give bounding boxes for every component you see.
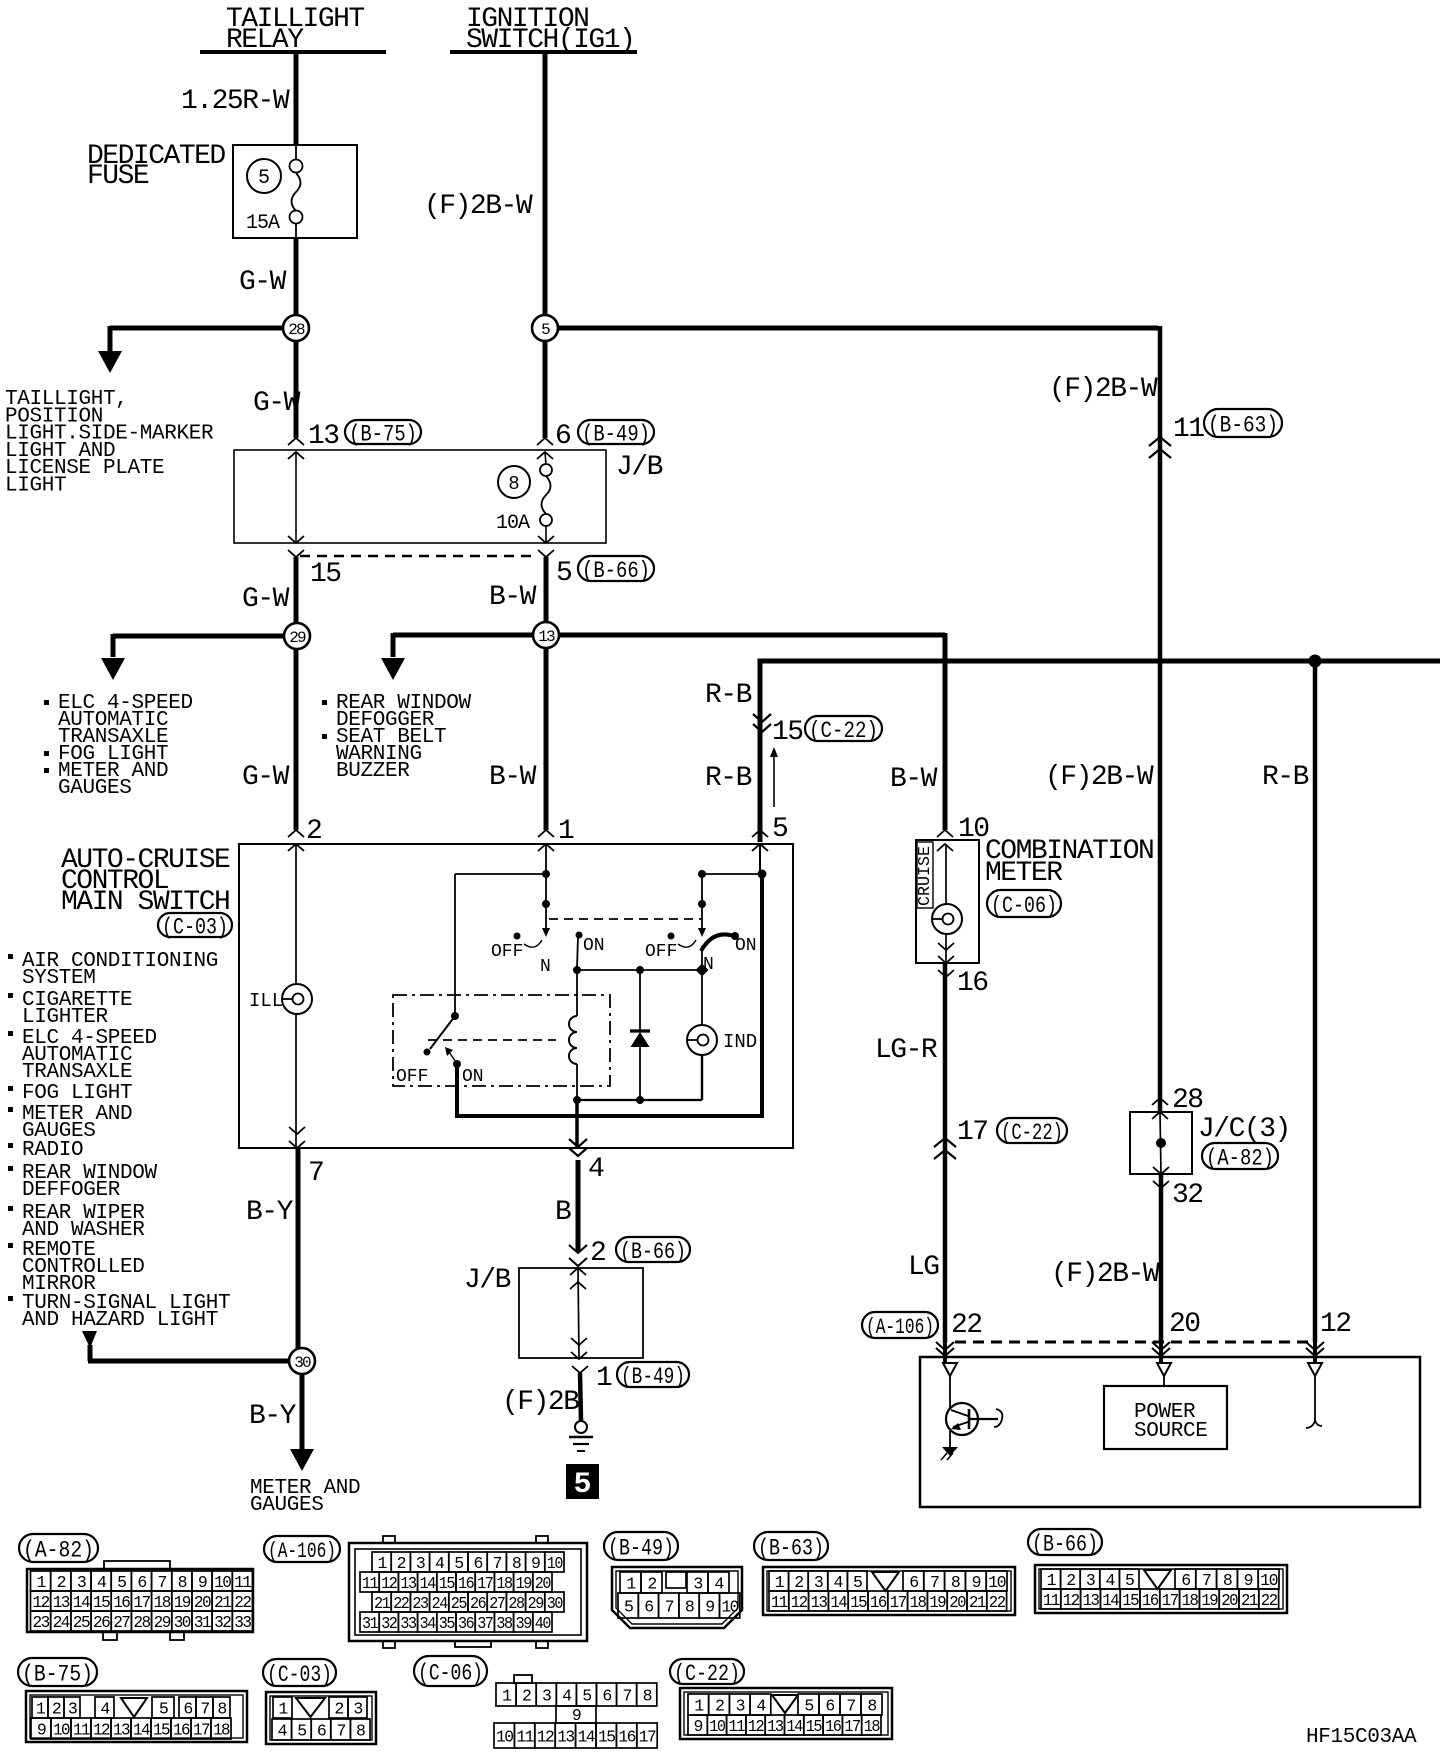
svg-text:16: 16 (1142, 1591, 1158, 1610)
internal wire to relay contact (455, 873, 546, 875)
svg-text:LIGHTER: LIGHTER (22, 1006, 109, 1029)
junction block J/B (234, 450, 606, 543)
svg-text:7: 7 (665, 1598, 674, 1617)
svg-text:31: 31 (194, 1613, 212, 1632)
svg-text:15: 15 (598, 1728, 615, 1747)
wire B-Y to node 30 (296, 1148, 301, 1350)
svg-text:2: 2 (397, 1554, 406, 1573)
svg-text:7: 7 (622, 1687, 631, 1706)
svg-text:32: 32 (1172, 1180, 1203, 1211)
svg-text:METER: METER (985, 858, 1063, 889)
svg-text:(C-22): (C-22) (809, 718, 878, 744)
svg-text:7: 7 (1202, 1571, 1211, 1590)
svg-text:HF15C03AA: HF15C03AA (1306, 1726, 1417, 1749)
svg-text:(F)2B-W: (F)2B-W (1045, 762, 1154, 793)
svg-text:14: 14 (786, 1717, 803, 1736)
svg-text:9: 9 (693, 1717, 702, 1736)
pin 2 entry (288, 830, 304, 837)
connector B-49 pinout (612, 1567, 742, 1628)
wire switch2 N to bus (701, 946, 703, 964)
auto-cruise control main switch box C-03 (239, 844, 793, 1148)
svg-text:2: 2 (52, 1700, 61, 1719)
svg-text:21: 21 (214, 1593, 232, 1612)
svg-text:8: 8 (643, 1687, 652, 1706)
svg-text:6: 6 (909, 1573, 918, 1592)
svg-text:18: 18 (213, 1721, 230, 1740)
svg-text:31: 31 (362, 1614, 379, 1633)
branch wire to ELC loads (113, 634, 286, 639)
pin 5 entry (752, 830, 768, 837)
connector B-63 pinout (763, 1567, 1015, 1615)
connector label C-22 (670, 1659, 744, 1684)
svg-text:10: 10 (709, 1717, 725, 1736)
svg-text:12: 12 (1063, 1591, 1079, 1610)
svg-text:12: 12 (381, 1574, 397, 1593)
wire LG-R (943, 963, 948, 1342)
svg-text:6: 6 (644, 1598, 653, 1617)
svg-text:J/C(3): J/C(3) (1198, 1114, 1290, 1145)
svg-text:29: 29 (154, 1613, 171, 1632)
rear defogger loads list (322, 700, 327, 705)
svg-text:22: 22 (1261, 1591, 1277, 1610)
pin 1 entry (538, 830, 554, 837)
connector C-22 pinout (680, 1688, 892, 1739)
svg-text:9: 9 (37, 1721, 46, 1740)
svg-text:7: 7 (158, 1573, 167, 1592)
svg-text:7: 7 (846, 1697, 855, 1716)
svg-text:10A: 10A (496, 512, 530, 535)
svg-text:(C-22): (C-22) (1001, 1120, 1063, 1146)
svg-text:14: 14 (73, 1593, 91, 1612)
svg-text:DEFFOGER: DEFFOGER (22, 1179, 121, 1202)
svg-text:B-W: B-W (890, 764, 938, 795)
svg-text:13: 13 (557, 1728, 574, 1747)
svg-text:2: 2 (334, 1700, 343, 1719)
svg-text:2: 2 (522, 1687, 531, 1706)
svg-text:15: 15 (153, 1721, 170, 1740)
svg-text:19: 19 (1201, 1591, 1217, 1610)
svg-text:(C-03): (C-03) (162, 914, 228, 940)
svg-text:39: 39 (516, 1614, 532, 1633)
svg-text:5: 5 (454, 1554, 463, 1573)
svg-text:13: 13 (400, 1574, 416, 1593)
svg-text:32: 32 (381, 1614, 397, 1633)
svg-text:20: 20 (535, 1574, 551, 1593)
svg-text:29: 29 (289, 629, 306, 647)
svg-text:OFF: OFF (396, 1067, 428, 1087)
svg-text:24: 24 (432, 1594, 449, 1613)
svg-text:8: 8 (217, 1700, 226, 1719)
svg-text:2: 2 (794, 1573, 803, 1592)
svg-text:FUSE: FUSE (87, 161, 149, 192)
svg-text:15: 15 (1122, 1591, 1138, 1610)
svg-text:ON: ON (735, 936, 757, 956)
svg-text:GAUGES: GAUGES (58, 777, 132, 800)
svg-text:11: 11 (729, 1717, 746, 1736)
svg-text:9: 9 (972, 1573, 981, 1592)
svg-text:10: 10 (214, 1573, 231, 1592)
svg-text:17: 17 (957, 1117, 988, 1148)
svg-text:26: 26 (93, 1613, 110, 1632)
svg-text:14: 14 (830, 1593, 847, 1612)
wire through J/B 2 (578, 1268, 579, 1358)
transistor symbol (949, 1376, 951, 1410)
svg-text:(F)2B-W: (F)2B-W (1051, 1259, 1160, 1290)
svg-text:22: 22 (989, 1593, 1005, 1612)
svg-text:LG-R: LG-R (875, 1035, 938, 1066)
svg-text:13: 13 (308, 421, 339, 452)
pin 2 B-66 marker (569, 1245, 587, 1253)
svg-text:6: 6 (137, 1573, 146, 1592)
terminal pin 22 (943, 1363, 957, 1376)
svg-text:3: 3 (1086, 1571, 1095, 1590)
diode (639, 970, 641, 1031)
svg-text:3: 3 (416, 1554, 425, 1573)
cruise lamp wire (945, 844, 947, 904)
svg-text:AND HAZARD LIGHT: AND HAZARD LIGHT (22, 1309, 218, 1332)
svg-text:17: 17 (890, 1593, 906, 1612)
svg-text:13: 13 (113, 1721, 130, 1740)
svg-text:18: 18 (154, 1593, 171, 1612)
svg-text:ILL: ILL (249, 990, 283, 1012)
svg-text:33: 33 (234, 1613, 251, 1632)
svg-text:23: 23 (412, 1594, 428, 1613)
svg-text:15: 15 (772, 717, 803, 748)
svg-text:(B-63): (B-63) (758, 1535, 824, 1561)
svg-text:8: 8 (512, 1554, 521, 1573)
connector C-03 pinout (266, 1692, 376, 1744)
svg-text:12: 12 (1320, 1309, 1351, 1340)
svg-text:16: 16 (458, 1574, 474, 1593)
svg-text:33: 33 (400, 1614, 416, 1633)
svg-text:11: 11 (234, 1573, 252, 1592)
svg-text:2: 2 (590, 1238, 605, 1269)
connector label B-66 (1028, 1529, 1102, 1555)
svg-text:(A-82): (A-82) (1206, 1145, 1274, 1171)
svg-text:(B-63): (B-63) (1208, 412, 1278, 438)
svg-text:(F)2B-W: (F)2B-W (424, 191, 533, 222)
svg-text:13: 13 (1083, 1591, 1099, 1610)
svg-text:(B-66): (B-66) (620, 1239, 686, 1265)
svg-text:5: 5 (1125, 1571, 1134, 1590)
svg-text:10: 10 (1260, 1571, 1278, 1590)
wire B-W to node 13 (544, 557, 549, 624)
relay linkage dashed (428, 1039, 556, 1041)
svg-text:RADIO: RADIO (22, 1139, 83, 1162)
wire G-W through J/B (288, 438, 304, 445)
svg-text:22: 22 (393, 1594, 409, 1613)
svg-text:FOG LIGHT: FOG LIGHT (22, 1082, 132, 1105)
svg-text:2: 2 (57, 1573, 66, 1592)
connector label A-82 (19, 1534, 98, 1562)
svg-text:7: 7 (493, 1554, 502, 1573)
svg-text:15: 15 (850, 1593, 866, 1612)
svg-text:5: 5 (772, 814, 788, 845)
power source unit (1104, 1386, 1227, 1449)
connector pass-through 17 C-22 (934, 1138, 956, 1147)
connector label B-63 (754, 1532, 828, 1560)
svg-text:15: 15 (310, 559, 341, 590)
svg-text:16: 16 (870, 1593, 886, 1612)
pin 4 exit (569, 1139, 587, 1147)
svg-text:17: 17 (844, 1717, 860, 1736)
wire G-W below fuse (294, 238, 299, 317)
svg-text:13: 13 (53, 1593, 70, 1612)
svg-text:10: 10 (496, 1728, 513, 1747)
svg-text:7: 7 (308, 1158, 323, 1189)
svg-text:17: 17 (1162, 1591, 1178, 1610)
svg-text:14: 14 (133, 1721, 151, 1740)
IND lamp wire (701, 976, 703, 1025)
svg-text:30: 30 (174, 1613, 191, 1632)
svg-text:13: 13 (811, 1593, 827, 1612)
connector label B-49 (604, 1532, 678, 1560)
svg-text:ON: ON (462, 1067, 484, 1087)
svg-text:21: 21 (374, 1594, 391, 1613)
svg-text:15: 15 (439, 1574, 455, 1593)
svg-text:14: 14 (420, 1574, 437, 1593)
node 5 (543, 340, 548, 438)
svg-text:3: 3 (814, 1573, 823, 1592)
svg-text:12: 12 (537, 1728, 554, 1747)
IND lamp (687, 1025, 717, 1055)
svg-text:21: 21 (969, 1593, 986, 1612)
svg-text:28: 28 (508, 1594, 524, 1613)
connector C-06 pinout (514, 1675, 532, 1683)
svg-text:19: 19 (929, 1593, 945, 1612)
svg-text:20: 20 (1169, 1309, 1200, 1340)
pin 1 internal wire (545, 844, 547, 906)
wire (F)2B-W ignition feed (543, 52, 548, 317)
svg-text:IND: IND (723, 1031, 757, 1053)
reference arrow up (773, 756, 775, 807)
svg-text:N: N (540, 957, 551, 977)
svg-text:16: 16 (825, 1717, 841, 1736)
wire to power source (1163, 1376, 1165, 1386)
svg-text:19: 19 (516, 1574, 532, 1593)
svg-text:B-Y: B-Y (249, 1401, 297, 1432)
switch 1 arm (545, 906, 547, 928)
wire branch node28 to taillight loads (110, 326, 285, 331)
node 28 (283, 315, 309, 341)
wire B-W to switch pin 1 (544, 647, 549, 830)
pin chevrons into power source (936, 1342, 954, 1350)
svg-text:19: 19 (174, 1593, 191, 1612)
svg-text:OFF: OFF (491, 942, 523, 962)
svg-text:15A: 15A (246, 212, 280, 235)
svg-text:30: 30 (294, 1354, 311, 1372)
wire B-W branch to combination meter (558, 633, 945, 638)
svg-text:B-W: B-W (489, 582, 537, 613)
svg-text:2: 2 (647, 1575, 656, 1594)
svg-text:11: 11 (771, 1593, 788, 1612)
relay coil (576, 970, 578, 1016)
svg-text:SOURCE: SOURCE (1134, 1420, 1208, 1443)
pin 10 entry (937, 830, 953, 837)
svg-text:30: 30 (547, 1594, 563, 1613)
svg-text:9: 9 (531, 1554, 540, 1573)
svg-text:8: 8 (508, 473, 519, 495)
svg-text:13: 13 (767, 1717, 783, 1736)
wire to pin 4 (575, 1100, 579, 1148)
svg-text:2: 2 (1066, 1571, 1075, 1590)
svg-text:(A-106): (A-106) (268, 1539, 336, 1564)
ILL lamp (282, 984, 312, 1014)
svg-text:38: 38 (496, 1614, 512, 1633)
svg-text:10: 10 (721, 1598, 738, 1617)
wire G-W to node 29 (294, 557, 299, 625)
combination meter box C-06 (916, 840, 979, 963)
svg-text:28: 28 (133, 1613, 150, 1632)
svg-text:(B-66): (B-66) (582, 558, 650, 584)
svg-text:20: 20 (949, 1593, 965, 1612)
internal bus wire (577, 969, 702, 971)
svg-text:11: 11 (362, 1574, 379, 1593)
svg-text:18: 18 (1182, 1591, 1198, 1610)
svg-text:GAUGES: GAUGES (250, 1494, 324, 1517)
svg-text:8: 8 (685, 1598, 694, 1617)
svg-text:28: 28 (288, 321, 305, 339)
svg-text:25: 25 (451, 1594, 467, 1613)
svg-text:1: 1 (596, 1363, 612, 1394)
svg-text:10: 10 (53, 1721, 70, 1740)
svg-text:34: 34 (420, 1614, 437, 1633)
connector ref A-106 (862, 1312, 938, 1338)
illumination loads list (8, 954, 13, 959)
pin 5 internal wire (759, 844, 761, 872)
wire R-B right vertical (1313, 661, 1318, 1342)
wire switch1 ON to bus (577, 937, 578, 968)
svg-text:26: 26 (470, 1594, 486, 1613)
connector boundary dashed line (300, 555, 532, 558)
svg-text:17: 17 (639, 1728, 656, 1747)
relay box dash-dot (393, 995, 610, 1086)
connector B-75 pinout (26, 1691, 247, 1742)
svg-text:(B-75): (B-75) (22, 1661, 93, 1687)
svg-text:N: N (703, 955, 714, 975)
svg-text:8: 8 (356, 1722, 365, 1741)
ground (575, 1421, 587, 1433)
svg-text:(C-22): (C-22) (674, 1661, 740, 1687)
pin 16 exit (938, 943, 954, 950)
svg-text:5: 5 (556, 558, 572, 589)
svg-text:5: 5 (804, 1697, 813, 1716)
svg-text:LIGHT: LIGHT (5, 475, 66, 498)
svg-text:5: 5 (624, 1598, 633, 1617)
svg-text:20: 20 (194, 1593, 211, 1612)
pin 7 exit (289, 1127, 305, 1134)
svg-text:13: 13 (538, 628, 555, 646)
wire B to J/B (576, 1160, 581, 1252)
svg-text:18: 18 (864, 1717, 880, 1736)
relay switch (451, 1012, 459, 1020)
svg-text:SYSTEM: SYSTEM (22, 967, 96, 990)
svg-text:36: 36 (458, 1614, 474, 1633)
svg-text:3: 3 (77, 1573, 86, 1592)
svg-text:8: 8 (867, 1697, 876, 1716)
svg-text:(B-66): (B-66) (1032, 1531, 1098, 1557)
switch 1 contacts (514, 933, 521, 940)
svg-text:20: 20 (1221, 1591, 1237, 1610)
svg-text:23: 23 (33, 1613, 50, 1632)
connector label C-06 (414, 1656, 487, 1686)
ILL lamp branch wire (295, 844, 297, 984)
svg-text:6: 6 (1181, 1571, 1190, 1590)
svg-text:7: 7 (930, 1573, 939, 1592)
svg-text:(B-49): (B-49) (582, 421, 650, 447)
svg-text:G-W: G-W (253, 388, 301, 419)
terminal pin 20 (1157, 1363, 1171, 1376)
svg-text:LG: LG (908, 1252, 939, 1283)
svg-text:8: 8 (951, 1573, 960, 1592)
svg-text:3: 3 (542, 1687, 551, 1706)
svg-text:5: 5 (541, 321, 550, 339)
svg-text:R-B: R-B (705, 763, 752, 794)
svg-text:(A-106): (A-106) (866, 1315, 934, 1340)
relay output loop wire (457, 875, 762, 1116)
node 30 (289, 1348, 315, 1374)
svg-text:27: 27 (489, 1594, 505, 1613)
svg-text:CRUISE: CRUISE (916, 846, 935, 906)
svg-text:16: 16 (618, 1728, 635, 1747)
svg-text:G-W: G-W (242, 584, 290, 615)
svg-text:10: 10 (988, 1573, 1006, 1592)
svg-text:29: 29 (528, 1594, 544, 1613)
svg-text:11: 11 (1173, 414, 1204, 445)
page reference 5 (566, 1464, 599, 1499)
svg-text:6: 6 (825, 1697, 834, 1716)
svg-text:OFF: OFF (645, 942, 677, 962)
svg-text:15: 15 (93, 1593, 110, 1612)
svg-text:16: 16 (173, 1721, 190, 1740)
svg-text:6: 6 (183, 1700, 192, 1719)
connector B-66 pinout (1035, 1565, 1287, 1613)
switch linkage dashed (549, 918, 701, 920)
connector A-106 pinout (349, 1543, 587, 1641)
terminal pin 12 (1308, 1363, 1322, 1376)
svg-text:10: 10 (547, 1554, 563, 1573)
node 13 (533, 622, 559, 648)
switch 2 arm (701, 906, 703, 928)
wire G-W to switch pin 2 (294, 648, 299, 830)
svg-text:6: 6 (602, 1687, 611, 1706)
node 29 (284, 623, 310, 649)
svg-text:7: 7 (200, 1700, 209, 1719)
connector dashed boundary A-106 (955, 1341, 1317, 1344)
svg-text:J/B: J/B (464, 1265, 511, 1296)
svg-text:16: 16 (957, 968, 988, 999)
svg-text:(B-49): (B-49) (621, 1364, 685, 1390)
svg-text:12: 12 (33, 1593, 50, 1612)
wire 1.25R-W from taillight relay (294, 52, 299, 146)
svg-text:37: 37 (477, 1614, 493, 1633)
svg-text:B: B (555, 1197, 571, 1228)
svg-text:(A-82): (A-82) (23, 1537, 94, 1563)
branch wire to rear defogger loads (393, 633, 535, 638)
svg-text:5: 5 (573, 1468, 591, 1502)
svg-text:8: 8 (1223, 1571, 1232, 1590)
svg-text:G-W: G-W (239, 267, 287, 298)
svg-text:3: 3 (353, 1700, 362, 1719)
svg-text:24: 24 (53, 1613, 71, 1632)
svg-text:7: 7 (336, 1722, 345, 1741)
svg-text:18: 18 (496, 1574, 512, 1593)
svg-text:14: 14 (578, 1728, 596, 1747)
CRUISE indicator lamp (932, 904, 962, 934)
svg-text:17: 17 (133, 1593, 150, 1612)
svg-text:5: 5 (297, 1722, 306, 1741)
switch 2 contacts (668, 933, 675, 940)
